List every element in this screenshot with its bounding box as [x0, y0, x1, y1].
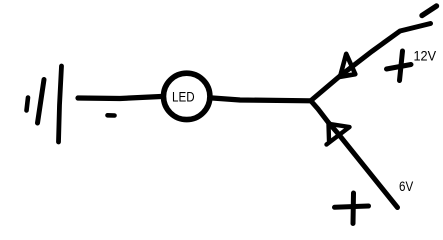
svg-text:LED: LED: [172, 88, 195, 104]
wire: battery to LED: [78, 97, 161, 99]
plus polarity label (6V) vertical stroke: [351, 193, 357, 224]
wire: LED to junction node: [213, 98, 312, 101]
LED lamp circle: [164, 73, 210, 119]
diode D1 triangle (upper branch): [340, 54, 355, 77]
wire: junction to 12V supply (upper branch): [311, 24, 431, 101]
plus polarity label (12V) vertical stroke: [400, 51, 403, 81]
wire: junction to 6V supply (lower branch): [311, 101, 398, 208]
svg-text:6V: 6V: [399, 179, 413, 194]
wire: detached end dash near 12V terminal: [422, 6, 437, 16]
minus polarity label: [108, 113, 115, 118]
diode D2 triangle (lower branch): [327, 124, 350, 145]
battery cell long plate: [59, 66, 62, 142]
battery cell short plate (slanted): [38, 80, 45, 124]
battery cell small tick stroke: [27, 98, 29, 111]
plus polarity label (12V) horizontal stroke: [387, 65, 412, 70]
svg-text:12V: 12V: [414, 49, 437, 64]
plus polarity label (6V) horizontal stroke: [335, 206, 369, 207]
